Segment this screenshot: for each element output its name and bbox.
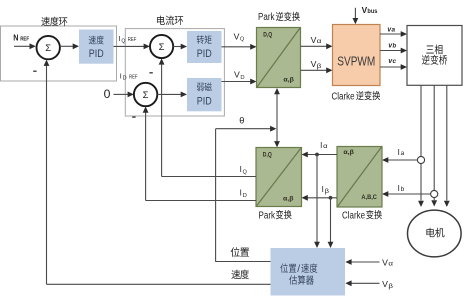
label 速度 bbox=[231, 270, 249, 280]
svg-text:c: c bbox=[393, 59, 397, 65]
label speed loop 速度环 bbox=[41, 17, 67, 26]
wire IQ Park to S2 feedback bbox=[159, 58, 256, 176]
label current loop 电流环 bbox=[157, 16, 183, 25]
label Iβ bbox=[322, 185, 330, 195]
svg-text:I: I bbox=[240, 165, 242, 174]
label Vβ (top) bbox=[311, 60, 322, 70]
block Clarke transform bbox=[337, 147, 382, 208]
svg-text:Q: Q bbox=[240, 37, 244, 43]
label θ bbox=[239, 115, 244, 125]
wire Iβ Clarke to Park bbox=[302, 195, 338, 201]
current sensor on phase B bbox=[431, 190, 438, 197]
wire speed PID to S2 (IQ REF) bbox=[114, 44, 150, 50]
wire Vβ into estimator bbox=[345, 280, 379, 286]
label VQ bbox=[234, 32, 245, 42]
wire Ia sensor to Clarke bbox=[382, 157, 417, 163]
summing junction S2 torque bbox=[150, 35, 173, 58]
wire S3 to flux PID bbox=[157, 92, 187, 98]
svg-text:PID: PID bbox=[197, 96, 212, 108]
wire VD flux PID to inverse Park bbox=[222, 79, 257, 85]
minus sign at S3 bbox=[132, 116, 135, 118]
block 弱磁PID bbox=[187, 78, 222, 111]
label 位置 bbox=[231, 247, 249, 257]
wire Vβ inverse Park to SVPWM bbox=[301, 67, 333, 73]
svg-text:REF: REF bbox=[20, 36, 29, 42]
svg-text:Clarke: Clarke bbox=[342, 210, 365, 221]
svg-text:A,B,C: A,B,C bbox=[361, 194, 377, 201]
svg-text:I: I bbox=[398, 148, 400, 157]
label Vα (top) bbox=[311, 36, 322, 45]
label Ib bbox=[398, 184, 405, 193]
svg-text:D: D bbox=[243, 193, 247, 199]
label IQ (feedback) bbox=[240, 165, 247, 175]
wire ID Park to S3 feedback bbox=[143, 106, 256, 200]
svg-text:a: a bbox=[392, 27, 396, 33]
label 0 (ID reference) bbox=[104, 87, 111, 101]
svg-text:N: N bbox=[13, 32, 18, 42]
svg-text:I: I bbox=[120, 71, 122, 80]
block SVPWM bbox=[333, 25, 381, 86]
summing junction S1 speed bbox=[37, 36, 60, 59]
wire θ to inverse Park and Park bbox=[274, 88, 280, 147]
svg-text:I: I bbox=[119, 34, 121, 43]
svg-text:/: / bbox=[297, 264, 300, 275]
svg-text:I: I bbox=[320, 141, 322, 150]
svg-text:I: I bbox=[240, 189, 242, 198]
svg-text:Σ: Σ bbox=[159, 42, 165, 53]
svg-text:Q: Q bbox=[121, 38, 125, 44]
svg-text:Σ: Σ bbox=[45, 43, 51, 54]
wire phase C inverter to motor bbox=[444, 85, 450, 207]
svg-text:α,β: α,β bbox=[283, 77, 294, 84]
minus sign at S2 bbox=[149, 72, 152, 74]
svg-text:REF: REF bbox=[128, 37, 137, 43]
svg-text:I: I bbox=[322, 185, 324, 194]
block inverse Park bbox=[257, 28, 301, 88]
wire Iα down to estimator bbox=[314, 155, 320, 249]
block 三相逆变桥 inverter bbox=[407, 26, 462, 86]
summing junction S3 flux weakening bbox=[134, 83, 157, 106]
svg-text:bus: bus bbox=[367, 9, 378, 15]
svg-text:SVPWM: SVPWM bbox=[337, 55, 375, 69]
svg-text:D,Q: D,Q bbox=[263, 151, 272, 158]
svg-text:Park: Park bbox=[259, 210, 276, 221]
junction dot Iα bbox=[315, 153, 319, 157]
svg-text:Σ: Σ bbox=[143, 90, 149, 101]
svg-text:D: D bbox=[123, 76, 127, 82]
label vc bbox=[388, 56, 396, 65]
speed loop boundary box bbox=[1, 26, 117, 81]
wire Ib sensor to Clarke bbox=[382, 191, 431, 197]
motor 电机 bbox=[408, 210, 462, 257]
label ID (feedback) bbox=[240, 189, 247, 199]
wire 0 to S3 bbox=[114, 92, 134, 98]
svg-text:b: b bbox=[401, 186, 405, 193]
svg-text:REF: REF bbox=[129, 74, 138, 80]
svg-text:β: β bbox=[317, 63, 322, 70]
svg-text:D,Q: D,Q bbox=[263, 32, 272, 39]
wire S2 to torque PID bbox=[173, 44, 187, 50]
label Vbus bbox=[362, 6, 378, 15]
label Park变换 bbox=[259, 210, 292, 221]
svg-text:a: a bbox=[401, 150, 405, 157]
wire N REF input arrow bbox=[14, 43, 36, 49]
svg-text:b: b bbox=[393, 43, 397, 49]
current loop boundary box bbox=[125, 29, 224, 116]
svg-text:α: α bbox=[323, 143, 328, 150]
label Vα (bottom) bbox=[382, 258, 393, 267]
block 位置/速度估算器 estimator bbox=[271, 248, 346, 296]
svg-text:PID: PID bbox=[197, 48, 212, 60]
wire Vbus into SVPWM bbox=[353, 8, 359, 25]
wire S1 to speed PID bbox=[60, 43, 79, 49]
label Park逆变换 bbox=[258, 12, 300, 23]
svg-text:α: α bbox=[388, 260, 393, 267]
svg-text:I: I bbox=[398, 184, 400, 193]
wire Iβ down to estimator bbox=[328, 198, 334, 248]
wire Vα into estimator bbox=[345, 259, 379, 265]
svg-text:β: β bbox=[325, 188, 330, 195]
block 速度PID bbox=[79, 30, 114, 64]
block 转矩PID bbox=[187, 31, 222, 63]
wire VQ torque PID to inverse Park bbox=[222, 44, 257, 50]
svg-text:θ: θ bbox=[239, 115, 244, 125]
svg-text:Park: Park bbox=[258, 12, 275, 23]
wire vb SVPWM to inverter bbox=[380, 48, 407, 54]
current sensor on phase A bbox=[417, 156, 424, 163]
svg-text:α: α bbox=[317, 38, 322, 45]
label Clarke逆变换 bbox=[332, 91, 381, 102]
wire va SVPWM to inverter bbox=[380, 31, 407, 37]
block Park transform bbox=[256, 148, 302, 207]
minus sign at S1 bbox=[33, 70, 36, 72]
label Vβ (bottom) bbox=[382, 280, 393, 290]
svg-text:α,β: α,β bbox=[343, 149, 354, 156]
wire position feedback from estimator bbox=[216, 126, 277, 262]
wire speed feedback estimator to S1 bbox=[44, 60, 271, 285]
label VD bbox=[234, 71, 245, 81]
label Iα bbox=[320, 141, 328, 150]
wire vc SVPWM to inverter bbox=[380, 64, 407, 70]
junction dot Iβ bbox=[329, 196, 333, 200]
svg-text:α,β: α,β bbox=[283, 195, 294, 202]
svg-text:PID: PID bbox=[89, 48, 104, 60]
wire Iα Clarke to Park bbox=[302, 152, 338, 158]
label ID REF bbox=[120, 71, 138, 81]
wire Vα inverse Park to SVPWM bbox=[301, 43, 333, 49]
label va bbox=[387, 24, 395, 33]
svg-text:Q: Q bbox=[243, 169, 247, 175]
label Clarke变换 bbox=[342, 210, 382, 221]
wire phase B inverter to motor bbox=[431, 85, 437, 206]
label vb bbox=[388, 40, 396, 49]
label Ia bbox=[398, 148, 405, 157]
label IQ REF bbox=[119, 34, 137, 44]
svg-text:β: β bbox=[388, 283, 393, 290]
svg-text:0: 0 bbox=[104, 87, 111, 101]
svg-text:D: D bbox=[240, 75, 244, 81]
label N REF bbox=[13, 32, 29, 42]
wire phase A inverter to motor bbox=[418, 85, 424, 207]
svg-text:Clarke: Clarke bbox=[332, 91, 355, 102]
